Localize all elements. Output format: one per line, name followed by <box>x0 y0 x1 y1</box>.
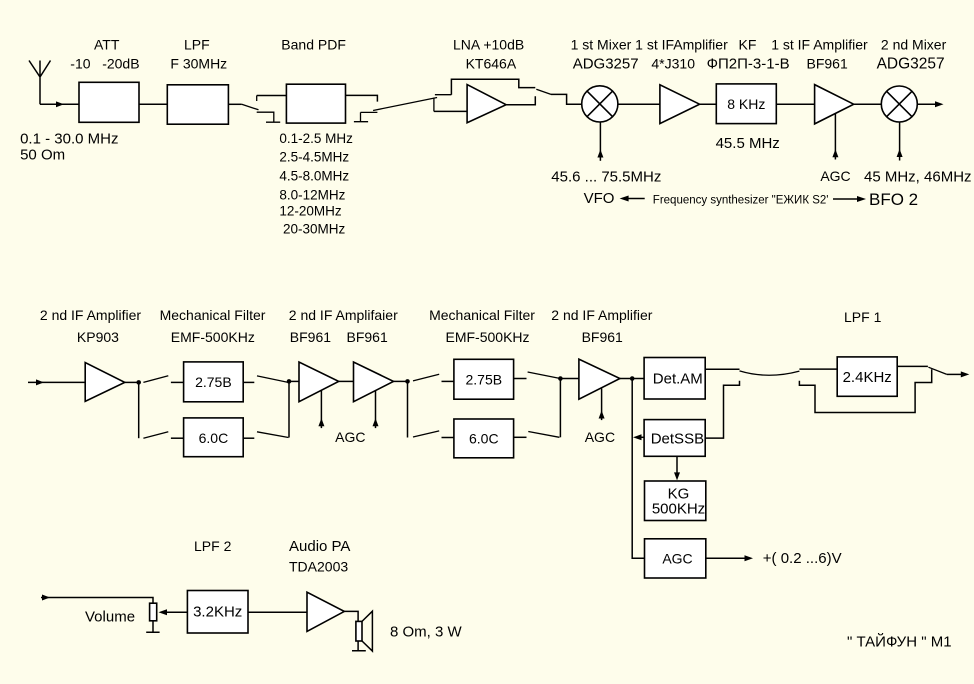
svg-text:Mechanical Filter: Mechanical Filter <box>429 307 535 323</box>
amplifier 1st IF 4*J310 <box>660 85 700 124</box>
wire AGC bus vertical <box>632 379 644 559</box>
wire between BF961 pair <box>339 380 354 382</box>
svg-text:Audio PA: Audio PA <box>289 538 350 555</box>
wire DetSSB to KG arrow <box>674 456 680 480</box>
wire arrow synthesizer to BFO 2 <box>833 196 866 202</box>
wire LPF to band switch <box>228 103 241 105</box>
wire to node C <box>394 380 408 382</box>
label 1st mixer row <box>571 37 947 73</box>
svg-text:AGC: AGC <box>820 168 850 184</box>
svg-text:2.4KHz: 2.4KHz <box>843 369 892 386</box>
svg-text:500KHz: 500KHz <box>652 501 705 518</box>
wire LNA output <box>506 96 535 105</box>
svg-text:Frequency synthesizer "ЕЖИК S: Frequency synthesizer "ЕЖИК S2' <box>653 195 829 207</box>
node C junction <box>405 379 410 384</box>
attenuator ATT <box>79 82 139 122</box>
svg-text:LNA +10dB: LNA +10dB <box>453 37 524 53</box>
wire stub to 2.75B <box>171 381 184 383</box>
wire filter to BF961 <box>776 103 814 105</box>
amplifier Audio PA TDA2003 <box>307 592 344 631</box>
wire BF961 to mixer 2 <box>854 103 882 105</box>
svg-text:2 nd Mixer: 2 nd Mixer <box>881 37 947 53</box>
svg-text:4.5-8.0MHz: 4.5-8.0MHz <box>279 169 349 184</box>
amplifier 1st IF BF961 <box>815 85 854 124</box>
svg-text:ADG3257: ADG3257 <box>573 56 639 73</box>
svg-text:12-20MHz: 12-20MHz <box>279 204 342 219</box>
amplifier 2nd IF BF961 a <box>299 362 339 402</box>
wire AGC input BF961 b <box>373 391 379 429</box>
crystal filter KF 8KHz <box>716 84 776 124</box>
filter EMF 2.75B #2 <box>454 359 514 399</box>
svg-text:Det.AM: Det.AM <box>653 370 703 387</box>
svg-text:2.5-4.5MHz: 2.5-4.5MHz <box>279 150 349 165</box>
svg-text:BFO 2: BFO 2 <box>869 190 918 209</box>
svg-text:AGC: AGC <box>585 429 615 445</box>
svg-text:ФП2П-3-1-В: ФП2П-3-1-В <box>707 56 790 73</box>
wire LNA bypass top <box>451 79 535 95</box>
svg-text:VFO: VFO <box>584 190 615 207</box>
band preselector Band PDF <box>286 84 345 123</box>
node input 0.1-30.0 MHz <box>20 131 118 164</box>
block AGC <box>645 539 706 578</box>
svg-text:LPF 2: LPF 2 <box>194 538 232 554</box>
wire mixer1 to IF amp <box>618 103 660 105</box>
oscillator KG 500KHz <box>645 481 706 521</box>
wire to mixer 1 <box>551 94 582 104</box>
label ATT <box>70 37 139 72</box>
svg-text:8 Om, 3 W: 8 Om, 3 W <box>390 623 463 640</box>
wire antenna to ATT <box>40 101 79 107</box>
wire PA to speaker <box>344 611 358 621</box>
wire BF961c to node E <box>620 378 632 380</box>
svg-text:DetSSB: DetSSB <box>651 431 704 448</box>
ground below speaker <box>352 641 366 651</box>
svg-text:KT646A: KT646A <box>466 56 517 72</box>
svg-text:" ТАЙФУН " М1: " ТАЙФУН " М1 <box>847 633 952 651</box>
node A junction <box>136 380 141 385</box>
wire node B vertical <box>288 381 290 437</box>
svg-text:-10 -20dB: -10 -20dB <box>70 56 139 72</box>
wire Band PDF out <box>346 95 378 101</box>
svg-text:LPF: LPF <box>184 37 210 53</box>
label band list <box>279 131 353 236</box>
svg-text:8.0-12MHz: 8.0-12MHz <box>279 187 345 202</box>
switch SW11 filter2 out upper <box>514 372 559 379</box>
wire switch to Band PDF <box>257 95 287 97</box>
svg-text:KF: KF <box>739 37 757 53</box>
svg-text:LPF 1: LPF 1 <box>844 309 882 325</box>
svg-text:BF961: BF961 <box>347 329 388 345</box>
wire stub to 2.75B #2 <box>442 380 454 382</box>
switch SW8 filter1 out lower <box>243 432 288 438</box>
svg-text:1 st Mixer 1 st IFAmplifier: 1 st Mixer 1 st IFAmplifier <box>571 37 728 53</box>
wire stub to 6.0C <box>171 437 184 439</box>
svg-text:0.1-2.5 MHz: 0.1-2.5 MHz <box>279 131 353 146</box>
switch SW7 filter1 out upper <box>243 376 287 383</box>
svg-text:Volume: Volume <box>85 608 135 625</box>
svg-text:45.6 ... 75.5MHz: 45.6 ... 75.5MHz <box>551 169 661 186</box>
wire node D to BF961 <box>560 378 579 380</box>
label LNA <box>453 37 524 72</box>
wire stub to 6.0C #2 <box>442 437 454 439</box>
filter EMF 2.75B <box>184 362 244 402</box>
svg-text:2.75B: 2.75B <box>195 374 232 390</box>
mixer U1 1st Mixer ADG3257 <box>582 86 618 122</box>
svg-text:AGC: AGC <box>662 551 692 567</box>
antenna W1 <box>29 61 51 105</box>
svg-text:BF961: BF961 <box>290 329 331 345</box>
detector DetSSB <box>644 420 705 457</box>
wire DetSSB to AGC bus arrow <box>633 434 644 440</box>
low-pass filter LPF <box>167 85 228 124</box>
wire DetSSB output up <box>705 381 739 438</box>
wire LNA input <box>434 110 467 112</box>
svg-text:3.2KHz: 3.2KHz <box>193 604 242 621</box>
wire AGC input of BF961 <box>832 114 838 160</box>
speaker LS1 <box>356 611 373 651</box>
svg-text:6.0C: 6.0C <box>469 431 499 447</box>
wire node B to BF961 pair <box>289 380 299 382</box>
svg-text:2 nd IF Amplifaier: 2 nd IF Amplifaier <box>289 307 398 323</box>
wire node D vertical <box>559 379 561 438</box>
switch SW12 filter2 out lower <box>514 432 560 438</box>
svg-text:EMF-500KHz: EMF-500KHz <box>171 329 255 345</box>
switch SW9 filter2 in upper <box>413 374 439 381</box>
node E junction <box>630 376 635 381</box>
svg-text:ATT: ATT <box>94 37 120 53</box>
switch SW6 filter1 in lower <box>143 432 168 438</box>
svg-text:AGC: AGC <box>335 429 365 445</box>
wire AGC input BF961 a <box>318 390 324 428</box>
wire selector to LPF1 <box>799 368 837 370</box>
switch SW5 filter1 in upper <box>143 376 168 383</box>
svg-text:KP903: KP903 <box>77 329 119 345</box>
mixer U2 2nd Mixer ADG3257 <box>881 86 917 122</box>
svg-text:45 MHz, 46MHz: 45 MHz, 46MHz <box>864 169 972 186</box>
svg-text:6.0C: 6.0C <box>199 430 229 446</box>
svg-text:1 st IF Amplifier: 1 st IF Amplifier <box>771 37 868 53</box>
ground below potentiometer <box>146 621 159 633</box>
switch SW10 filter2 in lower <box>413 431 439 437</box>
svg-text:BF961: BF961 <box>807 56 848 72</box>
node B junction <box>287 379 292 384</box>
wire ATT to LPF <box>139 103 167 105</box>
wire audio input <box>41 595 153 604</box>
svg-text:2 nd IF Amplifier: 2 nd IF Amplifier <box>40 307 141 323</box>
switch SW4 LNA out blade <box>536 89 551 94</box>
wire input 2nd IF strip <box>28 379 85 385</box>
wire BFO port of mixer 2 <box>897 122 903 161</box>
svg-text:F 30MHz: F 30MHz <box>170 56 227 72</box>
wire arrow synthesizer to VFO <box>620 196 645 202</box>
wire AGC input BF961 c <box>599 388 605 420</box>
svg-text:4*J310: 4*J310 <box>651 56 695 72</box>
wire node A down <box>138 382 140 438</box>
wire Det.AM output <box>705 368 739 370</box>
wire VFO port of mixer 1 <box>597 122 603 161</box>
svg-text:Mechanical Filter: Mechanical Filter <box>160 307 266 323</box>
detector Det.AM <box>644 358 705 400</box>
switch SW2 band select out blade <box>354 98 437 122</box>
svg-text:20-30MHz: 20-30MHz <box>283 222 346 237</box>
switch SW13 detector select blade <box>740 371 800 375</box>
wire LPF1 output <box>897 365 928 367</box>
switch SW1 band select in <box>242 96 281 123</box>
svg-text:50 Om: 50 Om <box>20 147 65 164</box>
filter LPF1 2.4KHz <box>837 357 897 396</box>
amplifier 2nd IF BF961 c <box>579 359 620 399</box>
node D junction <box>558 376 563 381</box>
wire LPF1 bypass <box>799 369 931 412</box>
svg-text:Band PDF: Band PDF <box>281 37 346 53</box>
svg-text:0.1 - 30.0 MHz: 0.1 - 30.0 MHz <box>20 131 118 148</box>
amplifier 2nd IF KP903 <box>85 363 125 402</box>
svg-text:EMF-500KHz: EMF-500KHz <box>446 329 530 345</box>
wire wiper arrow <box>159 609 188 615</box>
filter EMF 6.0C <box>184 418 244 457</box>
svg-text:2 nd IF Amplifier: 2 nd IF Amplifier <box>551 307 652 323</box>
amplifier 2nd IF BF961 b <box>354 362 394 402</box>
amplifier LNA KT646A <box>467 85 506 123</box>
filter EMF 6.0C #2 <box>454 419 514 458</box>
label Audio PA TDA2003 <box>289 538 350 575</box>
wire AGC output arrow <box>706 555 753 561</box>
wire audio output arrow <box>947 371 970 377</box>
svg-text:45.5 MHz: 45.5 MHz <box>716 135 780 152</box>
wire mixer 2 output arrow <box>917 101 943 107</box>
label KP903 header <box>40 307 882 345</box>
svg-text:2.75B: 2.75B <box>466 372 503 388</box>
wire KP903 out to node A <box>125 381 139 383</box>
svg-text:+( 0.2 ...6)V: +( 0.2 ...6)V <box>763 550 842 567</box>
wire node E to Det.AM <box>632 378 644 380</box>
switch SW3 LNA bypass contacts <box>434 95 452 112</box>
potentiometer Volume <box>150 603 157 621</box>
wire node C down <box>407 381 409 437</box>
filter LPF2 3.2KHz <box>187 591 248 634</box>
wire LPF2 to PA <box>248 611 307 613</box>
svg-text:8 KHz: 8 KHz <box>727 96 765 112</box>
switch SW14 output blade <box>928 367 946 374</box>
svg-text:TDA2003: TDA2003 <box>289 559 348 575</box>
svg-text:BF961: BF961 <box>582 329 623 345</box>
label LPF <box>170 37 227 72</box>
svg-text:ADG3257: ADG3257 <box>877 56 945 73</box>
wire to crystal filter <box>700 103 717 105</box>
